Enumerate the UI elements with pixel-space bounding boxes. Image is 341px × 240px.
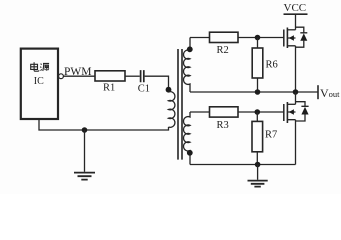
wire junction to left ground <box>84 130 86 172</box>
wire secondary-upper bottom rail to Vout terminal <box>190 91 318 93</box>
resistor R7 <box>256 112 258 121</box>
wire R2 to gate of Q1 <box>238 37 284 39</box>
bottom rail wire <box>190 164 296 166</box>
svg-text:C1: C1 <box>138 84 150 95</box>
node dot primary top <box>166 87 172 93</box>
MOSFET Q1 drain stub <box>287 29 295 31</box>
MOSFET Q1 channel bar <box>286 28 288 49</box>
svg-text:R6: R6 <box>266 60 278 71</box>
svg-text:R3: R3 <box>217 120 229 131</box>
MOSFET Q2 gate bar <box>283 104 285 121</box>
junction dot right ground <box>255 162 261 168</box>
wire R3 to gate of Q2 <box>238 111 284 113</box>
resistor R3 <box>210 107 239 117</box>
VCC power bar <box>284 13 308 15</box>
junction dot R6 bottom <box>255 89 261 95</box>
svg-text:R1: R1 <box>103 83 115 94</box>
node dot secondary upper (polarity) <box>187 46 193 52</box>
MOSFET Q1 substrate arrow <box>289 35 294 40</box>
wire Q2 source to bottom rail <box>295 120 297 165</box>
junction dot left ground <box>82 127 88 133</box>
junction dot Q1 source / Q2 drain node <box>293 89 299 95</box>
node dot secondary lower (polarity) <box>187 150 193 156</box>
IC U1 power-supply IC box <box>21 49 58 119</box>
resistor R1 <box>95 71 125 81</box>
wire mid rail to R3 <box>190 111 210 113</box>
wire upper rail to R2 <box>190 37 210 39</box>
junction dot R7 top <box>254 109 260 115</box>
svg-text:IC: IC <box>34 76 44 87</box>
MOSFET Q1 gate bar <box>283 30 285 47</box>
svg-text:VCC: VCC <box>284 2 307 14</box>
MOSFET Q2 drain lead to Vout rail <box>295 92 297 104</box>
resistor R6 <box>257 38 259 49</box>
Vout terminal tick <box>317 85 319 99</box>
ground right <box>248 181 268 187</box>
wire Q1 source to Vout rail <box>295 46 297 92</box>
wire primary bottom to IC ground rail <box>39 119 169 130</box>
MOSFET Q2 substrate arrow <box>289 109 294 114</box>
capacitor C1 <box>141 70 144 82</box>
wire R1 to C1 <box>125 75 140 77</box>
MOSFET Q2 drain stub <box>287 103 295 105</box>
ground left <box>74 173 95 180</box>
svg-text:R7: R7 <box>265 130 277 141</box>
secondary upper winding of T1 <box>184 38 190 93</box>
wire junction to right ground <box>257 165 259 180</box>
body diode D2 of Q2 <box>296 102 309 121</box>
junction dot R6 top <box>255 35 261 41</box>
resistor R2 <box>210 32 239 42</box>
MOSFET Q1 drain lead to VCC <box>295 14 297 30</box>
transformer core <box>178 49 182 160</box>
svg-text:Vout: Vout <box>320 86 340 100</box>
wire PWM pin to R1 <box>63 75 95 77</box>
secondary lower winding of T1 <box>184 112 190 165</box>
label 源 (of 电源) hand-drawn glyph <box>40 63 49 71</box>
label 电 (of 电源) hand-drawn glyph <box>31 62 39 71</box>
svg-text:R2: R2 <box>217 45 229 56</box>
transformer T1 primary winding <box>169 92 175 128</box>
MOSFET Q1 source stubs <box>287 38 295 46</box>
body diode D1 of Q1 <box>296 27 308 47</box>
pin circle PWM output <box>59 74 64 79</box>
wire C1 to transformer primary top <box>145 76 169 92</box>
MOSFET Q2 channel bar <box>286 102 288 123</box>
MOSFET Q2 source stubs <box>287 112 295 120</box>
